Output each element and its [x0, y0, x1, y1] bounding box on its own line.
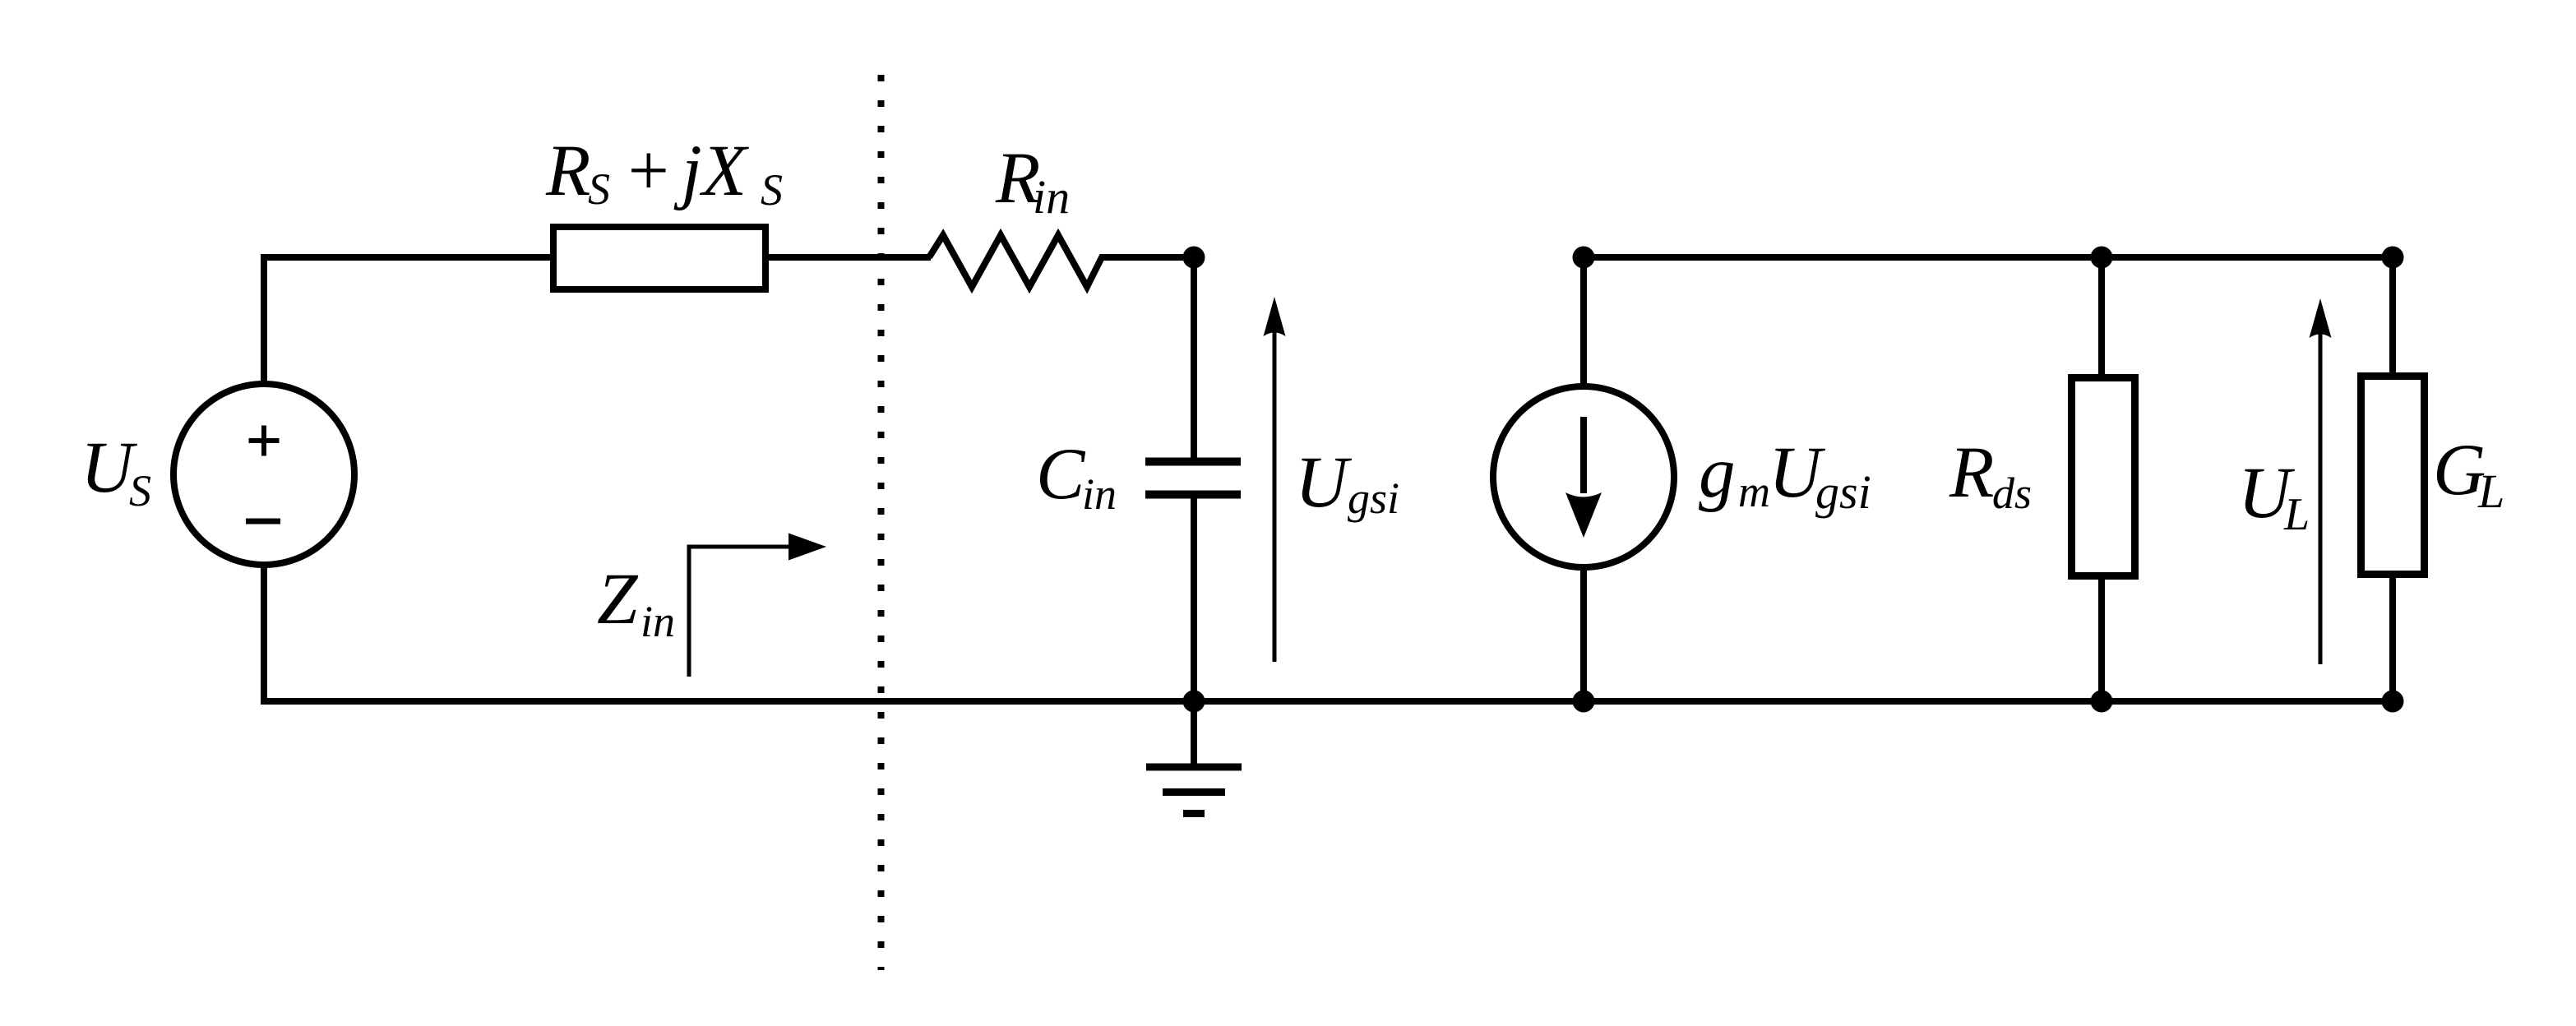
wire Rds top [2098, 257, 2105, 377]
wire Cin to bottom rail [1191, 494, 1197, 705]
svg-text:C: C [1036, 434, 1086, 515]
svg-text:L: L [2283, 489, 2310, 540]
svg-text:R: R [1949, 432, 1994, 513]
impedance box RS+jXS [553, 227, 765, 289]
impedance arrow Zin [689, 547, 791, 677]
wire node A down to Cin [1191, 254, 1197, 459]
voltage arrow Ugsi shaft [1273, 329, 1277, 662]
wire GL top [2389, 257, 2396, 376]
ground bar 3 [1183, 810, 1205, 817]
svg-text:g: g [1699, 432, 1736, 513]
Zin arrowhead [789, 534, 826, 561]
svg-text:in: in [1082, 469, 1117, 519]
resistor Rin zigzag [929, 235, 1197, 287]
top rail right [1584, 254, 2393, 261]
capacitor Cin bottom plate [1145, 491, 1241, 499]
node dot current source bottom [1573, 691, 1595, 713]
svg-text:R: R [545, 131, 590, 211]
node A dot (Rin/Cin junction) [1183, 247, 1205, 269]
node dot Rds bottom [2091, 691, 2113, 713]
node dot GL top [2382, 247, 2404, 269]
capacitor Cin top plate [1145, 458, 1241, 466]
svg-text:U: U [1295, 442, 1353, 523]
current source circle [1493, 386, 1674, 567]
svg-text:jX: jX [673, 131, 750, 211]
svg-text:gsi: gsi [1815, 465, 1871, 519]
svg-text:S: S [129, 466, 151, 515]
ground bar 1 [1146, 764, 1242, 771]
svg-text:Z: Z [597, 559, 639, 640]
wire source bottom and bottom rail [264, 562, 2393, 701]
svg-text:in: in [641, 597, 675, 646]
wire GL bottom [2389, 575, 2396, 701]
svg-text:+: + [623, 131, 673, 211]
svg-text:L: L [2477, 464, 2504, 518]
resistor box Rds [2072, 378, 2135, 576]
node dot GL bottom [2382, 691, 2404, 713]
svg-text:in: in [1033, 170, 1070, 224]
wire Rds bottom [2098, 576, 2105, 701]
UL arrowhead [2310, 298, 2332, 338]
dotted boundary line [878, 75, 885, 970]
plus sign in source [249, 426, 280, 456]
svg-text:m: m [1738, 467, 1770, 516]
svg-text:S: S [588, 164, 610, 214]
wire current source bottom [1580, 566, 1587, 701]
current source arrow shaft [1580, 417, 1587, 493]
conductance box GL [2361, 377, 2425, 575]
ground stub [1191, 701, 1197, 764]
node dot ground junction [1183, 691, 1205, 713]
wire source top to RS box [264, 257, 553, 386]
voltage arrow UL shaft [2319, 331, 2323, 664]
wire current source top [1580, 257, 1587, 388]
current source arrowhead [1565, 492, 1602, 538]
svg-text:gsi: gsi [1348, 474, 1399, 523]
node dot current source top [1573, 247, 1595, 269]
voltage source US circle [173, 384, 354, 565]
minus sign in source [246, 519, 280, 525]
svg-text:S: S [761, 165, 783, 215]
node dot Rds top [2091, 247, 2113, 269]
wire RS box to Rin [765, 254, 931, 261]
ground bar 2 [1163, 788, 1225, 796]
Ugsi arrowhead [1264, 297, 1286, 336]
svg-text:ds: ds [1992, 469, 2032, 518]
